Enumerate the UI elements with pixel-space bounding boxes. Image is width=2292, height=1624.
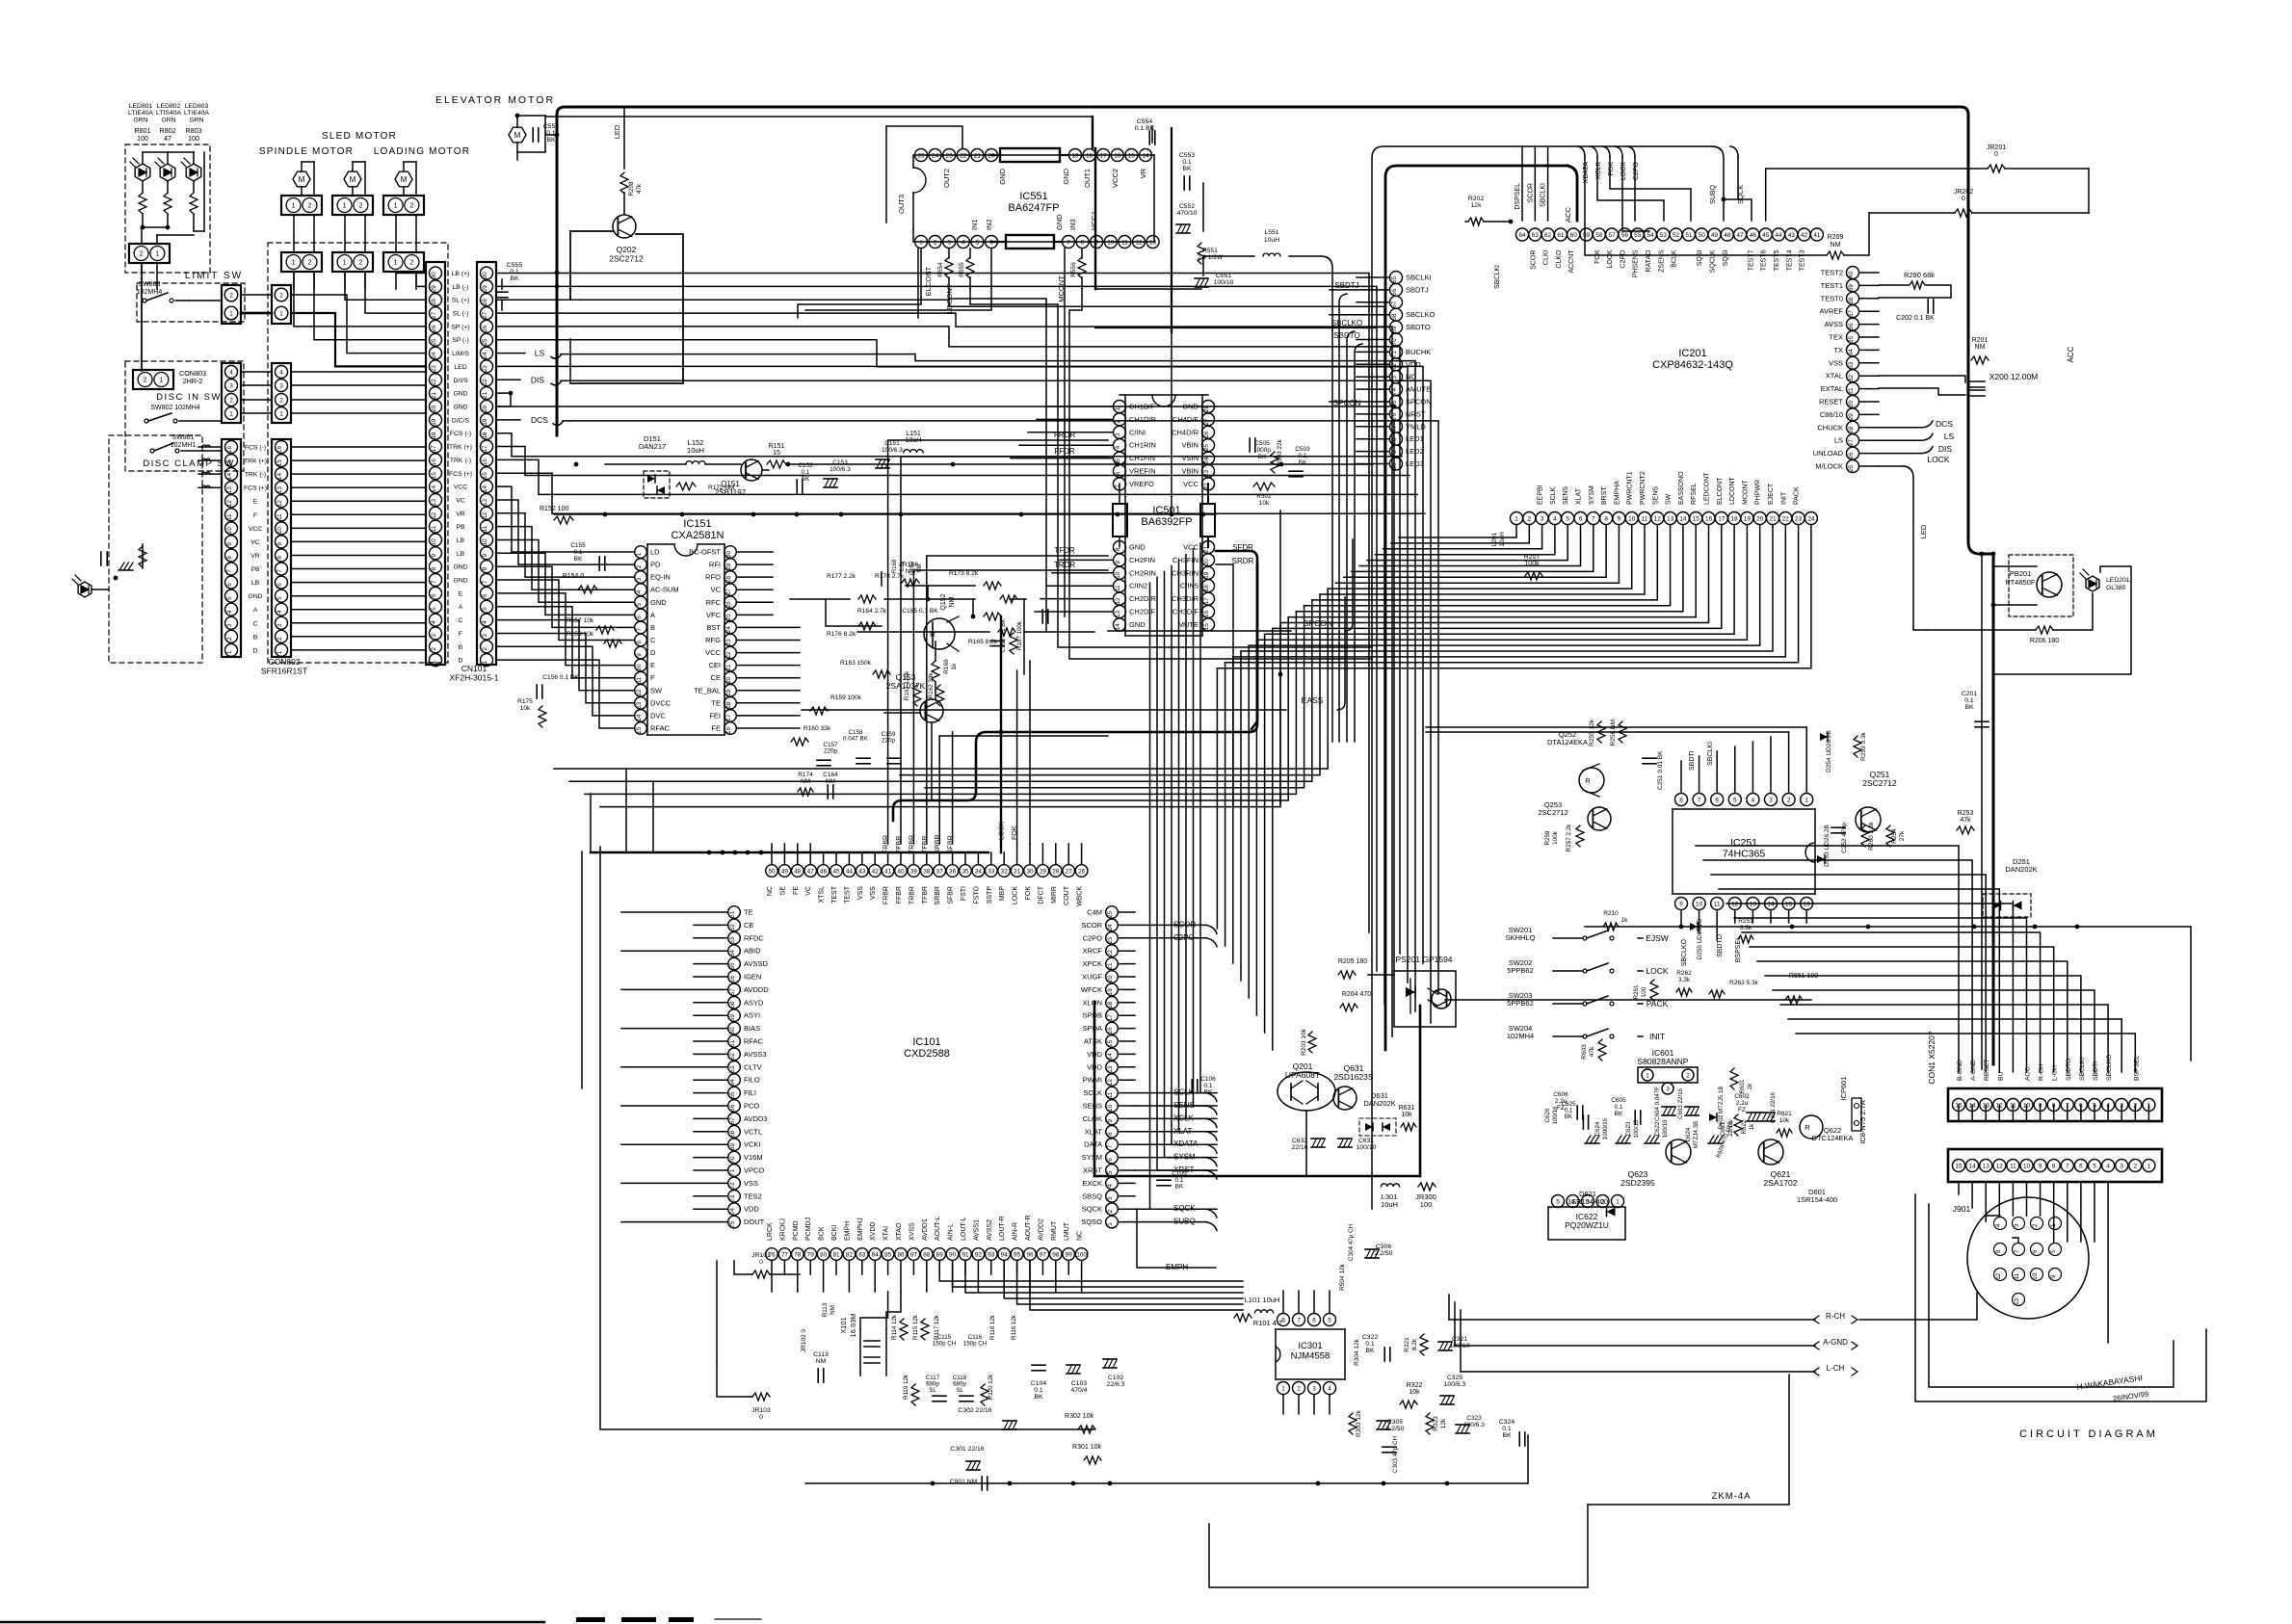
svg-text:M: M bbox=[299, 175, 305, 184]
svg-text:SW: SW bbox=[650, 686, 663, 694]
svg-text:2: 2 bbox=[144, 378, 147, 384]
svg-text:29: 29 bbox=[725, 563, 732, 571]
svg-text:66: 66 bbox=[1391, 288, 1398, 296]
svg-text:R323: R323 bbox=[1433, 1416, 1439, 1431]
svg-text:1: 1 bbox=[394, 260, 398, 267]
svg-text:11: 11 bbox=[1115, 585, 1121, 591]
svg-text:M: M bbox=[401, 175, 408, 184]
svg-text:2SC2712: 2SC2712 bbox=[609, 254, 644, 264]
svg-text:R159 100k: R159 100k bbox=[830, 694, 862, 701]
svg-text:LOCK: LOCK bbox=[1646, 966, 1668, 976]
svg-text:VC: VC bbox=[456, 498, 465, 505]
svg-text:ATSK: ATSK bbox=[1084, 1037, 1102, 1046]
svg-text:8: 8 bbox=[1679, 797, 1683, 803]
svg-text:IN2: IN2 bbox=[985, 219, 993, 230]
svg-text:VCKI: VCKI bbox=[744, 1140, 761, 1149]
svg-text:R168: R168 bbox=[892, 559, 898, 573]
svg-text:B-GND: B-GND bbox=[1957, 1060, 1963, 1081]
svg-text:12k: 12k bbox=[1471, 202, 1483, 209]
svg-text:AVDD3: AVDD3 bbox=[744, 1114, 767, 1123]
svg-text:CXP84632-143Q: CXP84632-143Q bbox=[1652, 359, 1733, 371]
svg-text:XVSS: XVSS bbox=[909, 1222, 915, 1241]
svg-text:7: 7 bbox=[636, 628, 643, 632]
svg-text:75: 75 bbox=[729, 1220, 736, 1228]
svg-text:C155: C155 bbox=[570, 542, 586, 549]
svg-text:A: A bbox=[253, 607, 258, 614]
svg-text:KRCKJ: KRCKJ bbox=[779, 1218, 786, 1241]
svg-text:DVC: DVC bbox=[650, 711, 666, 720]
svg-text:AVSS1: AVSS1 bbox=[973, 1219, 980, 1241]
svg-text:VSS: VSS bbox=[744, 1179, 758, 1188]
svg-text:0.047 BK: 0.047 BK bbox=[843, 736, 869, 743]
svg-text:220p: 220p bbox=[824, 748, 838, 755]
svg-text:OUT1: OUT1 bbox=[1083, 169, 1092, 188]
svg-text:2: 2 bbox=[1787, 797, 1791, 803]
svg-text:TEST5: TEST5 bbox=[1774, 249, 1780, 271]
svg-text:R173 8.2k: R173 8.2k bbox=[949, 570, 979, 577]
svg-text:PWMI: PWMI bbox=[1083, 1076, 1102, 1085]
svg-text:77: 77 bbox=[781, 1251, 789, 1258]
svg-text:6: 6 bbox=[1115, 471, 1121, 475]
svg-text:0.1: 0.1 bbox=[1365, 1341, 1375, 1348]
svg-text:1: 1 bbox=[1107, 1222, 1114, 1226]
svg-text:SCOR: SCOR bbox=[1081, 921, 1102, 930]
svg-text:22: 22 bbox=[482, 379, 488, 386]
svg-text:93: 93 bbox=[988, 1251, 995, 1258]
svg-text:3: 3 bbox=[482, 634, 488, 638]
svg-text:EASSONO: EASSONO bbox=[1678, 471, 1685, 505]
svg-text:1k: 1k bbox=[1749, 1123, 1755, 1130]
svg-text:70: 70 bbox=[729, 1156, 736, 1164]
svg-text:4: 4 bbox=[1553, 515, 1557, 522]
svg-text:VR: VR bbox=[250, 553, 260, 560]
svg-text:AVREF: AVREF bbox=[1820, 307, 1844, 316]
svg-text:IC551: IC551 bbox=[1019, 191, 1047, 202]
svg-text:49: 49 bbox=[781, 868, 789, 875]
svg-text:73: 73 bbox=[729, 1194, 736, 1202]
svg-text:26: 26 bbox=[482, 325, 488, 332]
svg-text:D/C/S: D/C/S bbox=[452, 417, 470, 424]
svg-text:7: 7 bbox=[431, 580, 437, 584]
svg-text:UPA608T: UPA608T bbox=[1285, 1070, 1320, 1080]
svg-text:28: 28 bbox=[1052, 868, 1060, 875]
svg-text:10uH: 10uH bbox=[1381, 1200, 1398, 1209]
svg-text:8: 8 bbox=[1115, 547, 1121, 551]
svg-text:37: 37 bbox=[1848, 310, 1855, 318]
svg-text:10uH: 10uH bbox=[1499, 532, 1506, 547]
svg-text:SENS: SENS bbox=[1563, 486, 1569, 505]
svg-text:84: 84 bbox=[872, 1251, 880, 1258]
svg-text:24: 24 bbox=[1807, 515, 1815, 522]
svg-text:3: 3 bbox=[226, 623, 233, 627]
svg-text:57: 57 bbox=[1609, 232, 1617, 239]
svg-text:J901: J901 bbox=[1953, 1204, 1971, 1214]
svg-text:NM: NM bbox=[1831, 242, 1841, 249]
svg-text:12: 12 bbox=[482, 511, 488, 519]
svg-text:BIAS: BIAS bbox=[744, 1024, 760, 1033]
svg-text:32: 32 bbox=[1001, 868, 1009, 875]
svg-text:6: 6 bbox=[277, 583, 283, 587]
svg-text:9: 9 bbox=[1618, 515, 1621, 522]
svg-text:1: 1 bbox=[229, 310, 233, 317]
svg-text:6: 6 bbox=[1107, 1158, 1114, 1162]
svg-text:AVDD1: AVDD1 bbox=[922, 1218, 929, 1241]
svg-text:14: 14 bbox=[482, 485, 488, 493]
svg-text:R202: R202 bbox=[1468, 196, 1484, 202]
svg-text:10: 10 bbox=[1107, 239, 1115, 246]
svg-text:10: 10 bbox=[2032, 1272, 2039, 1279]
svg-text:BK: BK bbox=[1964, 704, 1974, 711]
svg-text:LB (+): LB (+) bbox=[452, 271, 470, 277]
svg-text:11: 11 bbox=[1642, 515, 1648, 522]
svg-text:C624: C624 bbox=[1594, 1121, 1601, 1136]
svg-text:10uH: 10uH bbox=[1264, 237, 1279, 244]
svg-text:11: 11 bbox=[277, 513, 283, 520]
svg-text:SBDTI: SBDTI bbox=[2093, 1061, 2099, 1081]
svg-text:RFAC: RFAC bbox=[650, 724, 671, 733]
svg-text:C304 47p CH: C304 47p CH bbox=[1348, 1223, 1355, 1261]
svg-text:BK: BK bbox=[510, 275, 519, 282]
svg-text:R261: R261 bbox=[1633, 984, 1640, 1000]
svg-text:SPINDLE MOTOR: SPINDLE MOTOR bbox=[259, 146, 354, 157]
svg-text:21: 21 bbox=[1107, 962, 1114, 970]
svg-text:55: 55 bbox=[729, 962, 736, 970]
svg-text:20: 20 bbox=[1203, 559, 1210, 566]
svg-text:22: 22 bbox=[725, 651, 732, 659]
svg-text:11: 11 bbox=[2010, 1163, 2016, 1169]
svg-text:5: 5 bbox=[2093, 1163, 2096, 1169]
svg-text:23: 23 bbox=[1795, 515, 1803, 522]
svg-text:1k: 1k bbox=[951, 663, 958, 670]
svg-text:AOUT-R: AOUT-R bbox=[1025, 1216, 1032, 1241]
svg-text:C622: C622 bbox=[1654, 1121, 1661, 1136]
svg-text:R621: R621 bbox=[1777, 1111, 1792, 1117]
svg-text:1: 1 bbox=[1115, 406, 1121, 410]
svg-text:PHPWR: PHPWR bbox=[1755, 480, 1762, 505]
svg-text:FFBR: FFBR bbox=[896, 886, 903, 904]
svg-text:2: 2 bbox=[229, 397, 233, 404]
svg-text:GND: GND bbox=[1062, 168, 1070, 184]
svg-text:R165 8.2k: R165 8.2k bbox=[968, 639, 998, 645]
svg-text:1SR154-400: 1SR154-400 bbox=[1797, 1195, 1837, 1204]
svg-text:150p CH: 150p CH bbox=[963, 1341, 987, 1348]
svg-text:C626: C626 bbox=[1544, 1108, 1551, 1122]
svg-text:C4M: C4M bbox=[1087, 908, 1102, 917]
svg-text:30: 30 bbox=[1026, 868, 1034, 875]
svg-text:14: 14 bbox=[277, 473, 283, 481]
svg-text:LOUT-L: LOUT-L bbox=[961, 1217, 967, 1241]
svg-text:7: 7 bbox=[482, 580, 488, 584]
svg-text:BA6392FP: BA6392FP bbox=[1141, 516, 1192, 528]
svg-text:ACCNT: ACCNT bbox=[1568, 249, 1575, 274]
svg-text:11: 11 bbox=[1107, 1091, 1114, 1098]
svg-text:C152: C152 bbox=[798, 462, 813, 469]
svg-text:C552: C552 bbox=[1179, 203, 1195, 210]
svg-text:C554: C554 bbox=[1137, 118, 1152, 125]
svg-text:3: 3 bbox=[636, 577, 643, 581]
svg-text:30: 30 bbox=[1848, 400, 1855, 407]
svg-text:DAN217: DAN217 bbox=[639, 442, 666, 451]
svg-text:1: 1 bbox=[277, 650, 283, 654]
svg-text:14: 14 bbox=[226, 473, 233, 481]
svg-text:2SB1197: 2SB1197 bbox=[715, 488, 747, 497]
svg-text:8: 8 bbox=[1081, 239, 1085, 246]
svg-text:43: 43 bbox=[1788, 232, 1796, 239]
svg-text:AIN-L: AIN-L bbox=[948, 1223, 955, 1241]
svg-text:R-CH: R-CH bbox=[1826, 1312, 1845, 1321]
svg-text:LOCK: LOCK bbox=[1620, 162, 1627, 180]
svg-text:51: 51 bbox=[1685, 232, 1693, 239]
svg-text:17: 17 bbox=[1100, 152, 1108, 159]
svg-text:C86/10: C86/10 bbox=[1820, 410, 1843, 419]
svg-text:4: 4 bbox=[1995, 1223, 2002, 1227]
svg-text:33: 33 bbox=[1848, 361, 1855, 369]
svg-text:M: M bbox=[514, 131, 521, 140]
svg-text:SBCLKI: SBCLKI bbox=[1494, 265, 1501, 289]
svg-text:D: D bbox=[650, 648, 656, 657]
svg-text:9: 9 bbox=[226, 542, 233, 546]
svg-text:GND: GND bbox=[453, 391, 467, 398]
svg-text:LOCK: LOCK bbox=[1013, 886, 1019, 904]
svg-text:18: 18 bbox=[1107, 1001, 1114, 1008]
svg-text:59: 59 bbox=[729, 1014, 736, 1022]
svg-text:3: 3 bbox=[431, 634, 437, 638]
svg-text:EEPBI: EEPBI bbox=[1538, 485, 1544, 505]
svg-text:8: 8 bbox=[1995, 1249, 2002, 1253]
svg-text:COUT: COUT bbox=[1064, 885, 1070, 905]
svg-text:10uH: 10uH bbox=[687, 446, 704, 455]
svg-text:R503 22k: R503 22k bbox=[1277, 438, 1283, 466]
svg-text:BCK: BCK bbox=[819, 1226, 826, 1241]
svg-text:22: 22 bbox=[1782, 515, 1790, 522]
svg-text:CON1 X52207: CON1 X52207 bbox=[1927, 1031, 1936, 1085]
svg-text:5PPB62: 5PPB62 bbox=[1507, 966, 1534, 975]
svg-text:14: 14 bbox=[1679, 515, 1687, 522]
svg-text:ZSENS: ZSENS bbox=[1658, 249, 1665, 273]
svg-text:68: 68 bbox=[1391, 313, 1398, 321]
svg-text:VFC: VFC bbox=[706, 611, 722, 619]
svg-text:AMUTE: AMUTE bbox=[1406, 385, 1431, 394]
svg-text:12: 12 bbox=[1995, 1272, 2002, 1279]
svg-text:C/INI: C/INI bbox=[1129, 428, 1146, 436]
svg-text:5: 5 bbox=[1733, 797, 1737, 803]
svg-text:CH1D/R: CH1D/R bbox=[1129, 415, 1157, 424]
svg-text:29: 29 bbox=[482, 285, 488, 293]
svg-text:17: 17 bbox=[1718, 515, 1726, 522]
svg-text:7: 7 bbox=[2066, 1163, 2069, 1169]
svg-text:C153: C153 bbox=[832, 459, 848, 466]
svg-text:2: 2 bbox=[409, 260, 413, 267]
svg-text:13: 13 bbox=[431, 498, 437, 506]
svg-text:50: 50 bbox=[768, 868, 776, 875]
svg-text:FOK: FOK bbox=[1594, 249, 1601, 264]
svg-text:2SD2395: 2SD2395 bbox=[1620, 1178, 1655, 1188]
svg-text:29: 29 bbox=[431, 285, 437, 293]
svg-text:EXTAL: EXTAL bbox=[1821, 384, 1843, 393]
svg-text:64: 64 bbox=[1518, 232, 1526, 239]
svg-text:64: 64 bbox=[729, 1079, 736, 1087]
svg-text:48: 48 bbox=[794, 868, 802, 875]
svg-text:39: 39 bbox=[1848, 284, 1855, 292]
svg-text:50: 50 bbox=[1699, 232, 1706, 239]
svg-text:21: 21 bbox=[1769, 515, 1777, 522]
svg-text:9: 9 bbox=[1679, 901, 1683, 907]
svg-text:AVSS2: AVSS2 bbox=[987, 1219, 993, 1241]
svg-text:IC301: IC301 bbox=[1298, 1341, 1322, 1351]
svg-text:FRBR: FRBR bbox=[883, 886, 890, 904]
svg-text:C322: C322 bbox=[1362, 1334, 1378, 1341]
svg-text:2: 2 bbox=[140, 251, 144, 258]
svg-text:RFO: RFO bbox=[705, 573, 721, 582]
svg-text:XRCF: XRCF bbox=[1083, 947, 1103, 956]
svg-text:CH1FIN: CH1FIN bbox=[1129, 454, 1155, 462]
svg-text:1: 1 bbox=[159, 378, 163, 384]
svg-text:A-GND: A-GND bbox=[1970, 1060, 1977, 1081]
svg-text:CH2FIN: CH2FIN bbox=[1129, 556, 1155, 564]
svg-text:10: 10 bbox=[431, 538, 437, 546]
svg-text:L201: L201 bbox=[1491, 532, 1498, 546]
svg-text:Q202: Q202 bbox=[617, 245, 637, 254]
svg-text:14: 14 bbox=[1767, 901, 1775, 907]
svg-text:R254: R254 bbox=[1891, 828, 1898, 844]
svg-text:OUT2: OUT2 bbox=[942, 169, 951, 188]
svg-text:61: 61 bbox=[729, 1039, 736, 1047]
svg-text:19: 19 bbox=[431, 418, 437, 426]
svg-text:SBCLKO: SBCLKO bbox=[1406, 310, 1436, 319]
svg-text:TEST3: TEST3 bbox=[1800, 249, 1806, 271]
svg-text:1: 1 bbox=[636, 552, 643, 556]
svg-text:BA6247FP: BA6247FP bbox=[1008, 202, 1059, 214]
svg-text:RESET: RESET bbox=[1984, 1059, 1990, 1081]
svg-text:SPCON: SPCON bbox=[1304, 618, 1332, 628]
svg-text:8: 8 bbox=[277, 556, 283, 560]
svg-text:CH2RIN: CH2RIN bbox=[1129, 568, 1156, 577]
svg-text:13: 13 bbox=[226, 486, 233, 494]
svg-text:0: 0 bbox=[759, 1259, 763, 1266]
svg-text:PWRCNT2: PWRCNT2 bbox=[1640, 471, 1647, 505]
svg-text:53: 53 bbox=[729, 936, 736, 944]
svg-text:B: B bbox=[459, 644, 463, 651]
svg-text:2: 2 bbox=[1107, 1209, 1114, 1213]
svg-text:13: 13 bbox=[1149, 239, 1157, 246]
svg-text:46: 46 bbox=[1750, 232, 1757, 239]
svg-text:GND: GND bbox=[1129, 543, 1146, 552]
svg-text:R555: R555 bbox=[959, 262, 965, 277]
svg-text:2: 2 bbox=[2032, 1223, 2039, 1227]
svg-text:C555: C555 bbox=[507, 262, 522, 269]
svg-text:9: 9 bbox=[1107, 1119, 1114, 1123]
svg-text:R169: R169 bbox=[943, 659, 950, 674]
svg-text:L-CH: L-CH bbox=[2052, 1065, 2059, 1081]
svg-text:49: 49 bbox=[1711, 232, 1719, 239]
svg-text:2: 2 bbox=[1686, 1072, 1690, 1079]
svg-text:10: 10 bbox=[1696, 901, 1703, 907]
svg-text:1k: 1k bbox=[1621, 917, 1629, 924]
svg-text:VCC: VCC bbox=[249, 526, 262, 533]
svg-text:6: 6 bbox=[2079, 1163, 2083, 1169]
svg-text:PQ20WZ1U: PQ20WZ1U bbox=[1565, 1220, 1609, 1230]
svg-text:VBIN: VBIN bbox=[1181, 467, 1199, 476]
svg-text:2: 2 bbox=[1528, 515, 1532, 522]
svg-text:6: 6 bbox=[1715, 797, 1719, 803]
svg-text:JR101: JR101 bbox=[751, 1252, 771, 1259]
svg-text:R: R bbox=[1805, 1123, 1810, 1132]
svg-text:25: 25 bbox=[725, 614, 732, 621]
svg-text:BK: BK bbox=[1299, 459, 1307, 466]
svg-text:36: 36 bbox=[1848, 323, 1855, 330]
svg-text:54: 54 bbox=[1647, 232, 1654, 239]
svg-text:C202 0.1 BK: C202 0.1 BK bbox=[1896, 315, 1935, 322]
svg-text:24: 24 bbox=[482, 352, 488, 359]
svg-text:1: 1 bbox=[2147, 1163, 2151, 1169]
svg-text:TEST7: TEST7 bbox=[1748, 249, 1754, 271]
svg-text:EMPHA: EMPHA bbox=[1614, 481, 1620, 505]
svg-text:FE: FE bbox=[793, 886, 800, 895]
svg-text:R210: R210 bbox=[1603, 910, 1619, 917]
svg-text:4: 4 bbox=[1328, 1385, 1331, 1392]
svg-text:58: 58 bbox=[1595, 232, 1603, 239]
svg-text:LTIE40A: LTIE40A bbox=[184, 110, 209, 117]
svg-text:C606: C606 bbox=[1553, 1091, 1568, 1098]
svg-text:24: 24 bbox=[1203, 457, 1210, 464]
svg-text:102MH4: 102MH4 bbox=[1507, 1032, 1534, 1040]
svg-text:R302 10k: R302 10k bbox=[1065, 1413, 1093, 1420]
svg-text:NC: NC bbox=[767, 886, 774, 896]
svg-text:2: 2 bbox=[358, 260, 362, 267]
svg-text:VR: VR bbox=[1139, 168, 1147, 178]
svg-text:FCS (+): FCS (+) bbox=[244, 485, 267, 492]
svg-text:45: 45 bbox=[1762, 232, 1770, 239]
svg-text:100k: 100k bbox=[1552, 830, 1559, 845]
svg-text:47: 47 bbox=[1737, 232, 1745, 239]
svg-text:TEST6: TEST6 bbox=[1761, 249, 1768, 271]
svg-text:BSPSEL: BSPSEL bbox=[2133, 1055, 2140, 1081]
svg-text:22: 22 bbox=[1107, 950, 1114, 957]
svg-text:34: 34 bbox=[975, 868, 983, 875]
svg-text:D: D bbox=[253, 647, 258, 654]
svg-text:CXD2588: CXD2588 bbox=[904, 1048, 950, 1060]
svg-text:VCC: VCC bbox=[1183, 543, 1199, 552]
svg-text:C302 22/16: C302 22/16 bbox=[958, 1407, 991, 1414]
svg-text:R601: R601 bbox=[1739, 1079, 1746, 1094]
svg-text:SCLK: SCLK bbox=[1550, 486, 1557, 505]
svg-text:Q151: Q151 bbox=[721, 480, 740, 488]
svg-text:FSTI: FSTI bbox=[961, 886, 967, 901]
svg-text:C601 22/16: C601 22/16 bbox=[1770, 1091, 1777, 1123]
svg-text:NM: NM bbox=[917, 563, 923, 572]
svg-text:13: 13 bbox=[1983, 1163, 1990, 1169]
svg-text:5: 5 bbox=[976, 239, 980, 246]
svg-text:ICP601: ICP601 bbox=[1839, 1076, 1848, 1100]
svg-text:2: 2 bbox=[279, 397, 283, 404]
svg-text:LB: LB bbox=[457, 537, 465, 544]
svg-text:VR: VR bbox=[456, 511, 465, 517]
svg-text:8: 8 bbox=[2052, 1163, 2056, 1169]
svg-text:9: 9 bbox=[431, 553, 437, 557]
svg-text:LIM/S: LIM/S bbox=[452, 351, 469, 357]
svg-text:16: 16 bbox=[1107, 1027, 1114, 1035]
svg-text:OUT3: OUT3 bbox=[897, 195, 906, 214]
svg-text:34: 34 bbox=[1848, 349, 1855, 356]
svg-text:94: 94 bbox=[1001, 1251, 1009, 1258]
svg-text:1: 1 bbox=[343, 203, 347, 210]
svg-text:DSPSEL: DSPSEL bbox=[1515, 183, 1521, 210]
svg-text:10: 10 bbox=[2023, 1163, 2031, 1169]
svg-text:FILI: FILI bbox=[744, 1088, 756, 1097]
svg-text:C323: C323 bbox=[1466, 1415, 1482, 1422]
svg-text:VDD: VDD bbox=[744, 1205, 759, 1214]
svg-text:27: 27 bbox=[482, 311, 488, 319]
